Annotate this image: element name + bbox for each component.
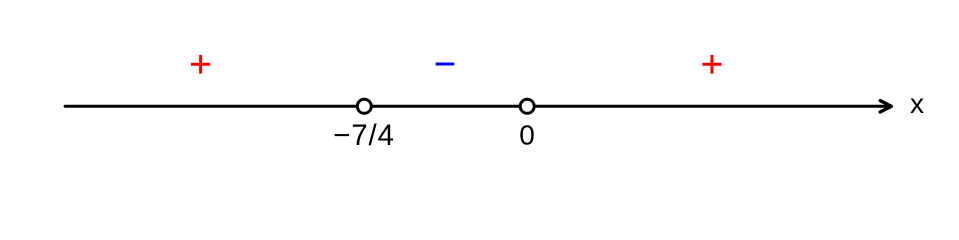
- axis arrowhead: [880, 101, 891, 112]
- minus sign middle interval: [436, 63, 455, 66]
- plus sign right interval: [702, 55, 721, 74]
- plus sign left interval: [191, 55, 210, 74]
- svg-text:x: x: [910, 88, 924, 119]
- number line axis: [65, 105, 889, 108]
- svg-text:−7/4: −7/4: [333, 119, 394, 152]
- open circle at -7/4: [357, 99, 371, 113]
- open circle at 0: [520, 99, 534, 113]
- svg-text:0: 0: [519, 120, 535, 151]
